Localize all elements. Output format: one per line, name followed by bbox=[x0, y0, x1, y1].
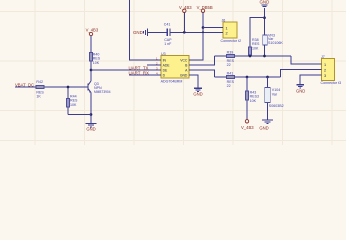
svg-text:GND: GND bbox=[86, 127, 95, 132]
wire IC pin2 stub bbox=[147, 64, 161, 66]
svg-text:V_4B3: V_4B3 bbox=[179, 5, 192, 10]
node R43 pull-up tap bbox=[246, 76, 249, 79]
power port V_4B3 left bbox=[86, 27, 99, 35]
wire IC A pin to R41 line bbox=[195, 70, 215, 77]
svg-text:V_DB5B: V_DB5B bbox=[197, 5, 213, 10]
resistor R40 bbox=[90, 52, 101, 64]
varistor VR3 bbox=[263, 34, 284, 46]
svg-text:10K: 10K bbox=[250, 99, 257, 103]
wire C41 to connector t2 pin2 bbox=[170, 31, 223, 33]
wire vertical from top to IC pin1 bbox=[130, 0, 162, 60]
ground IC GND pin bbox=[193, 75, 202, 97]
wire V_4B3 column bbox=[90, 36, 92, 81]
svg-text:GND: GND bbox=[259, 125, 268, 130]
svg-text:GND: GND bbox=[133, 30, 143, 35]
wire base line y=87 bbox=[15, 86, 88, 88]
wire UART_TX to IC pin3 bbox=[91, 69, 161, 71]
resistor R38 bbox=[249, 38, 260, 55]
wire R41 line to t3 pin2 bbox=[281, 70, 317, 78]
wire GND to C41 bbox=[148, 31, 168, 33]
wire R43 column bbox=[246, 77, 248, 120]
svg-text:ADG704BRM: ADG704BRM bbox=[161, 79, 183, 83]
node junction collector/UART_TX bbox=[90, 69, 93, 72]
resistor R43 bbox=[246, 90, 259, 102]
svg-text:VCC: VCC bbox=[180, 59, 188, 63]
connector t3 bbox=[316, 55, 341, 85]
svg-text:S10106K: S10106K bbox=[268, 41, 283, 45]
wire to t2 pin1 bbox=[203, 27, 223, 29]
svg-text:C41: C41 bbox=[164, 22, 171, 26]
resistor R44 bbox=[67, 94, 78, 107]
svg-text:1K: 1K bbox=[36, 95, 41, 99]
ground sideways GND at C41 bbox=[133, 28, 148, 36]
transistor Q3 bbox=[88, 81, 111, 94]
svg-text:GND: GND bbox=[193, 92, 202, 97]
node V_DB5B / t2 pin1 bbox=[202, 26, 205, 29]
wire branch left and down R38 column bbox=[250, 18, 265, 56]
svg-text:22: 22 bbox=[227, 63, 231, 67]
resistor R41 bbox=[227, 72, 235, 89]
svg-text:IN: IN bbox=[163, 59, 167, 63]
sheet background bbox=[0, 0, 346, 145]
connector t2 bbox=[218, 18, 241, 42]
wire R39 line bbox=[215, 55, 291, 57]
ground top GND port bbox=[260, 0, 270, 8]
op-amp U3 multiplexer bbox=[156, 52, 195, 83]
svg-text:S0603B2: S0603B2 bbox=[269, 104, 284, 108]
svg-text:2: 2 bbox=[226, 32, 228, 36]
svg-text:10K: 10K bbox=[70, 103, 77, 107]
ground t3 pin3 bbox=[296, 75, 316, 94]
svg-text:10K: 10K bbox=[252, 46, 259, 50]
svg-text:R42: R42 bbox=[36, 80, 43, 84]
ground Q3 emitter bbox=[86, 123, 97, 131]
svg-text:MMBT3904: MMBT3904 bbox=[94, 90, 111, 94]
svg-text:GND: GND bbox=[296, 89, 305, 94]
wire IC B pin to R39 line bbox=[195, 56, 215, 65]
node V_4B3 tap bbox=[183, 31, 186, 34]
resistor R39 bbox=[227, 50, 235, 67]
svg-text:22: 22 bbox=[227, 84, 231, 88]
svg-text:Connector t3: Connector t3 bbox=[321, 81, 342, 85]
wire V_DB5B drop to IC VCC bbox=[195, 13, 204, 61]
wire GND column down bbox=[264, 8, 266, 35]
node branch to R38 bbox=[263, 16, 266, 19]
svg-text:R41: R41 bbox=[227, 72, 234, 76]
svg-text:ADE: ADE bbox=[163, 64, 171, 68]
wire R41 line bbox=[215, 76, 281, 78]
svg-text:1: 1 bbox=[324, 63, 326, 67]
svg-text:1 nF: 1 nF bbox=[164, 42, 172, 46]
node R38 on R39 line bbox=[249, 55, 252, 58]
power port V_DB5B bbox=[197, 5, 213, 13]
power port V_4B3 bottom bbox=[241, 120, 254, 130]
ground varistor bbox=[259, 120, 272, 130]
svg-text:V_4B3: V_4B3 bbox=[241, 125, 254, 130]
wire R44 column bbox=[67, 87, 69, 115]
svg-text:GND: GND bbox=[180, 74, 188, 78]
node emitter/R44 junction bbox=[90, 113, 93, 116]
varistor V104 bbox=[265, 88, 284, 108]
svg-text:R39: R39 bbox=[227, 50, 234, 54]
svg-text:Connector t2: Connector t2 bbox=[221, 39, 242, 43]
node varistor tap bbox=[266, 76, 269, 79]
wire VR3 to R39 line bbox=[264, 45, 266, 56]
svg-text:GND: GND bbox=[260, 0, 270, 5]
power port V_4B3 top bbox=[179, 5, 192, 13]
svg-text:Var: Var bbox=[272, 92, 278, 96]
node crossing at t2 pin2 wire bbox=[202, 31, 204, 33]
svg-text:10K: 10K bbox=[93, 61, 100, 65]
wire varistor column bbox=[267, 77, 269, 120]
svg-text:V_4B3: V_4B3 bbox=[86, 27, 99, 32]
svg-text:DE: DE bbox=[163, 69, 168, 73]
node base/R44 junction bbox=[67, 86, 70, 89]
svg-text:2: 2 bbox=[324, 68, 326, 72]
resistor R42 bbox=[36, 80, 44, 99]
wire emitter down bbox=[90, 93, 92, 123]
wire R44 bottom link bbox=[68, 114, 91, 116]
svg-text:1: 1 bbox=[226, 26, 228, 30]
svg-text:UART_RX: UART_RX bbox=[129, 70, 149, 75]
wire IC pin4 bbox=[129, 74, 161, 76]
wire V_4B3 drop bbox=[183, 13, 185, 33]
capacitor C41 bbox=[164, 22, 172, 46]
wire R39 line to t3 pin1 bbox=[291, 56, 316, 64]
node C38 on R39 line bbox=[263, 55, 266, 58]
svg-text:3: 3 bbox=[324, 74, 326, 78]
